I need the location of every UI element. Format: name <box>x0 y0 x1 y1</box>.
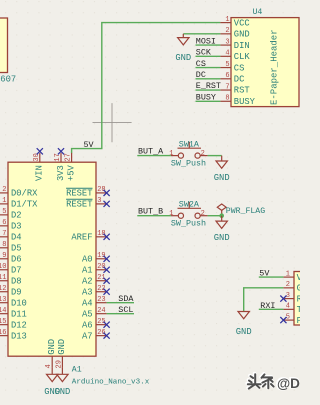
label BUSY <box>196 92 216 102</box>
svg-text:D13: D13 <box>11 331 27 341</box>
svg-text:P: P <box>297 316 300 326</box>
A1 pin 11 (D8) <box>0 274 22 286</box>
A1 pin 1 (D1/TX) <box>0 197 38 209</box>
svg-text:A3: A3 <box>82 287 93 297</box>
A1 pin 20 (A1) <box>82 263 107 275</box>
ground (A1 pin 4) <box>44 367 60 397</box>
label BUT_A <box>138 146 164 156</box>
U4 pin 6 (DC) <box>220 72 244 84</box>
cursor crosshair <box>93 103 132 142</box>
A1 pin 15 (D12) <box>0 318 27 330</box>
A1 pin 2 (D0/RX) <box>0 186 38 198</box>
A1 pin 28 (RESET) <box>66 186 107 198</box>
component body (top-left, partially cut off) <box>0 18 8 73</box>
svg-text:6: 6 <box>2 219 6 227</box>
svg-text:7: 7 <box>225 83 229 91</box>
svg-text:BUSY: BUSY <box>196 92 216 102</box>
svg-text:8: 8 <box>2 241 6 249</box>
wire 5V to connector pin 1 <box>259 276 284 278</box>
svg-text:3V3: 3V3 <box>56 165 66 181</box>
no-connect A1 pin 22 <box>104 289 110 295</box>
svg-text:GND: GND <box>47 339 57 355</box>
svg-text:SDA: SDA <box>118 294 134 304</box>
svg-text:2: 2 <box>225 27 229 35</box>
wire SCL (A1 pin 24) <box>107 313 134 315</box>
A1 pin 26 (A7) <box>82 329 107 341</box>
label 5V (bottom right) <box>259 269 269 279</box>
A1 pin 18 (AREF) <box>71 230 106 242</box>
svg-text:V: V <box>297 273 300 283</box>
svg-text:1: 1 <box>169 210 173 218</box>
svg-text:A5: A5 <box>82 309 93 319</box>
no-connect A1 pin 26 <box>104 333 110 339</box>
svg-text:1: 1 <box>2 197 6 205</box>
svg-text:2: 2 <box>201 210 205 218</box>
wire MOSI to U4 pin 3 <box>196 44 221 46</box>
svg-text:D2: D2 <box>11 211 22 221</box>
svg-text:4: 4 <box>225 50 229 58</box>
svg-text:T: T <box>297 305 300 315</box>
svg-text:Arduino_Nano_v3.x: Arduino_Nano_v3.x <box>72 379 150 387</box>
svg-text:D10: D10 <box>11 298 27 308</box>
svg-text:SW2A: SW2A <box>179 200 200 210</box>
svg-text:D4: D4 <box>11 233 22 243</box>
svg-text:4: 4 <box>286 303 290 311</box>
svg-text:1: 1 <box>169 150 173 158</box>
A1 pin 30 (VIN) top <box>33 153 45 181</box>
wire connector pin 2 to ground <box>244 288 284 312</box>
svg-text:A2: A2 <box>82 276 93 286</box>
wire RXI to connector pin 4 <box>259 308 284 310</box>
svg-text:D11: D11 <box>11 309 27 319</box>
A1 pin 9 (D6) <box>0 252 22 264</box>
svg-text:GND: GND <box>214 173 230 183</box>
A1 pin 13 (D10) <box>0 296 27 308</box>
svg-text:10: 10 <box>0 263 6 271</box>
svg-text:D5: D5 <box>11 244 22 254</box>
connector U4 body <box>231 18 299 107</box>
svg-text:CLK: CLK <box>234 52 251 62</box>
svg-text:U4: U4 <box>252 8 262 17</box>
svg-text:AREF: AREF <box>71 233 92 243</box>
svg-text:2: 2 <box>2 186 6 194</box>
connector body (bottom right, partially cut off) <box>294 272 306 326</box>
A1 pin 4 (GND) bottom <box>45 339 57 369</box>
svg-text:CS: CS <box>196 59 206 69</box>
label E_RST <box>196 81 221 91</box>
svg-text:A6: A6 <box>82 320 93 330</box>
label SCK <box>196 48 212 58</box>
svg-text:SCK: SCK <box>196 48 212 58</box>
no-connect A1 pin 3 <box>104 201 110 207</box>
U4 pin 5 (CS) <box>220 61 244 73</box>
reference U4 <box>252 8 262 17</box>
svg-text:SCL: SCL <box>118 305 133 315</box>
svg-text:DC: DC <box>196 70 206 80</box>
value Arduino_Nano_v3.x <box>72 379 150 387</box>
svg-text:3: 3 <box>97 197 101 205</box>
svg-text:6: 6 <box>225 72 229 80</box>
svg-text:DC: DC <box>234 75 245 85</box>
svg-text:A7: A7 <box>82 331 93 341</box>
connector pin 5 (P...) <box>283 313 301 325</box>
label RXI <box>260 301 275 311</box>
svg-text:D6: D6 <box>11 254 22 264</box>
label 5V (top, near A1) <box>84 140 94 150</box>
svg-text:3: 3 <box>225 38 229 46</box>
wire SCK to U4 pin 4 <box>196 55 221 57</box>
no-connect connector pin 3 <box>280 296 286 302</box>
no-connect A1 pin 28 <box>104 190 110 196</box>
svg-text:VIN: VIN <box>35 165 45 181</box>
svg-text:GND: GND <box>234 30 250 40</box>
wire SDA (A1 pin 23) <box>107 302 134 304</box>
wire BUT_B to SW2A pin 1 <box>137 215 171 217</box>
svg-text:7: 7 <box>2 230 6 238</box>
connector pin 2 (G...) <box>283 281 301 293</box>
A1 pin 22 (A3) <box>82 285 107 297</box>
connector pin 3 (R...) <box>283 292 302 304</box>
svg-text:A1: A1 <box>82 265 93 275</box>
wire BUT_A to SW1A pin 1 <box>137 155 171 157</box>
svg-text:RST: RST <box>234 86 250 96</box>
svg-text:8: 8 <box>225 95 229 103</box>
wire U4 pin 2 to ground <box>183 33 220 35</box>
A1 pin 21 (A2) <box>82 274 107 286</box>
A1 pin 27 (+5V) top <box>65 153 77 181</box>
A1 pin 24 (A5) <box>82 307 107 319</box>
U4 pin 3 (DIN) <box>220 38 249 50</box>
MCU A1 Arduino_Nano_v3.x body <box>8 162 96 356</box>
ground (U4 pin 2) <box>175 34 191 63</box>
svg-text:CS: CS <box>234 63 245 73</box>
no-connect A1 pin 21 <box>104 278 110 284</box>
A1 pin 16 (D13) <box>0 329 27 341</box>
U4 pin 2 (GND) <box>220 27 249 39</box>
svg-text:A4: A4 <box>82 298 93 308</box>
svg-text:24: 24 <box>97 307 105 315</box>
svg-text:5V: 5V <box>84 140 94 150</box>
svg-text:DIN: DIN <box>234 41 250 51</box>
svg-text:GND: GND <box>175 53 191 63</box>
wire E_RST to U4 pin 7 <box>196 89 221 91</box>
svg-text:+5V: +5V <box>66 164 76 181</box>
no-connect A1 pin 30 <box>37 148 43 154</box>
svg-text:D0/RX: D0/RX <box>11 189 38 199</box>
no-connect A1 pin 25 <box>104 322 110 328</box>
A1 pin 29 (GND) bottom <box>55 339 67 369</box>
label SDA <box>118 294 134 304</box>
svg-text:GND: GND <box>214 233 230 243</box>
svg-text:1: 1 <box>225 16 229 24</box>
no-connect A1 pin 17 <box>58 148 64 154</box>
svg-text:5: 5 <box>225 61 229 69</box>
svg-text:BUT_A: BUT_A <box>138 146 164 156</box>
label DC <box>196 70 206 80</box>
A1 pin 19 (A0) <box>82 252 107 264</box>
svg-text:A1: A1 <box>72 366 82 375</box>
connector pin 1 (V...) <box>283 270 302 282</box>
svg-text:1: 1 <box>286 270 290 278</box>
wire SW2A pin 2 to junction <box>208 215 222 217</box>
ground (connector pin 2) <box>236 312 252 337</box>
wire DC to U4 pin 6 <box>196 78 221 80</box>
no-connect A1 pin 18 <box>104 234 110 240</box>
svg-text:RESET: RESET <box>66 189 92 199</box>
svg-text:VCC: VCC <box>234 18 250 28</box>
svg-text:MOSI: MOSI <box>196 36 216 46</box>
svg-text:BUSY: BUSY <box>234 97 256 107</box>
watermark 头条 @D (Toutiao) <box>247 374 300 392</box>
svg-text:D12: D12 <box>11 320 27 330</box>
wire SW1A pin 2 to ground <box>208 155 222 157</box>
U4 pin 8 (BUSY) <box>220 95 255 107</box>
svg-text:607: 607 <box>0 74 16 84</box>
svg-text:2: 2 <box>201 150 205 158</box>
svg-text:GND: GND <box>57 339 67 355</box>
svg-text:SW1A: SW1A <box>179 140 200 150</box>
wire BUSY to U4 pin 8 <box>196 100 221 102</box>
svg-text:PWR_FLAG: PWR_FLAG <box>226 207 265 216</box>
svg-text:GND: GND <box>236 327 252 337</box>
A1 pin 5 (D2) <box>0 208 22 220</box>
svg-text:D7: D7 <box>11 265 22 275</box>
label CS <box>196 59 206 69</box>
power flag PWR_FLAG <box>217 204 265 216</box>
reference A1 <box>72 366 82 375</box>
no-connect A1 pin 20 <box>104 267 110 273</box>
svg-text:16: 16 <box>0 329 6 337</box>
svg-text:SW_Push: SW_Push <box>171 159 206 169</box>
svg-text:9: 9 <box>2 252 6 260</box>
U4 pin 1 (VCC) <box>220 16 249 28</box>
no-connect A1 pin 19 <box>104 256 110 262</box>
A1 pin 6 (D3) <box>0 219 22 231</box>
label MOSI <box>196 36 216 46</box>
label BUT_B <box>138 207 163 217</box>
svg-text:RESET: RESET <box>66 200 92 210</box>
wire CS to U4 pin 5 <box>196 67 221 69</box>
wire 5V net: A1 +5V pin to U4 pin 1 <box>72 23 221 154</box>
svg-text:12: 12 <box>0 285 6 293</box>
A1 pin 8 (D5) <box>0 241 22 253</box>
label SCL <box>118 305 133 315</box>
svg-text:D1/TX: D1/TX <box>11 200 38 210</box>
svg-text:GND: GND <box>54 387 70 397</box>
U4 pin 4 (CLK) <box>220 50 250 62</box>
switch SW2A (SW_Push) <box>169 200 207 229</box>
svg-text:@D: @D <box>277 376 300 391</box>
value label ...607 <box>0 74 16 84</box>
switch SW1A (SW_Push) <box>169 140 207 169</box>
junction (SW2A pin2 / PWR_FLAG / GND) <box>219 213 224 218</box>
svg-text:R: R <box>297 294 300 304</box>
svg-text:11: 11 <box>0 274 6 282</box>
svg-text:A0: A0 <box>82 254 93 264</box>
svg-text:27: 27 <box>65 153 73 161</box>
A1 pin 7 (D4) <box>0 230 22 242</box>
svg-text:SW_Push: SW_Push <box>171 219 206 229</box>
A1 pin 10 (D7) <box>0 263 22 275</box>
svg-text:E-Paper_Header: E-Paper_Header <box>270 29 280 105</box>
svg-text:23: 23 <box>97 296 105 304</box>
no-connect connector pin 5 <box>280 317 286 323</box>
A1 pin 17 (3V3) top <box>54 153 66 181</box>
ground (A1 pin 29) <box>54 367 70 397</box>
A1 pin 12 (D9) <box>0 285 22 297</box>
connector pin 4 (T...) <box>283 303 301 315</box>
value E-Paper_Header (vertical) <box>270 29 280 105</box>
svg-text:5: 5 <box>2 208 6 216</box>
A1 pin 23 (A4) <box>82 296 107 308</box>
svg-text:2: 2 <box>286 281 290 289</box>
svg-text:D3: D3 <box>11 222 22 232</box>
U4 pin 7 (RST) <box>220 83 249 95</box>
svg-text:D9: D9 <box>11 287 22 297</box>
svg-text:5V: 5V <box>259 269 269 279</box>
A1 pin 14 (D11) <box>0 307 27 319</box>
svg-text:13: 13 <box>0 296 6 304</box>
svg-text:E_RST: E_RST <box>196 81 221 91</box>
svg-text:RXI: RXI <box>260 301 275 311</box>
svg-text:D8: D8 <box>11 276 22 286</box>
svg-text:15: 15 <box>0 318 6 326</box>
svg-text:14: 14 <box>0 307 6 315</box>
ground (SW1A) <box>214 156 230 184</box>
ground (SW2A) <box>214 216 230 244</box>
svg-text:G: G <box>297 284 300 294</box>
A1 pin 25 (A6) <box>82 318 107 330</box>
A1 pin 3 (RESET) <box>66 197 107 209</box>
